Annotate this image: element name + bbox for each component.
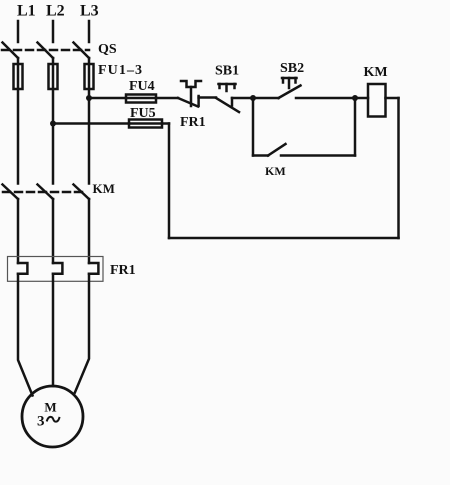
coil KM body xyxy=(368,84,386,117)
button SB2 NO blade xyxy=(279,86,301,99)
button SB2 actuator bar xyxy=(282,77,297,80)
svg-text:QS: QS xyxy=(98,42,117,57)
thermal overload FR1 heater 3 xyxy=(89,263,98,274)
fuse FU5 inner line xyxy=(129,122,162,125)
button SB1 actuator left tick xyxy=(218,84,221,88)
button SB1 actuator right tick xyxy=(233,84,236,88)
contact FR1 NC stem xyxy=(190,87,193,106)
svg-text:FR1: FR1 xyxy=(110,263,136,278)
switch QS linkage dashed line xyxy=(2,49,89,52)
thermal overload FR1 box xyxy=(8,257,104,282)
svg-text:FR1: FR1 xyxy=(180,115,206,130)
svg-text:KM: KM xyxy=(364,65,388,80)
wire L1 overload to motor xyxy=(18,274,33,396)
svg-text:KM: KM xyxy=(93,181,115,196)
wire L3 contact to overload xyxy=(88,199,91,263)
wire FR1 contact to SB1 xyxy=(199,96,216,99)
svg-text:L2: L2 xyxy=(46,3,65,20)
button SB2 actuator left tick xyxy=(282,78,285,83)
wire L3 top stub xyxy=(88,21,91,42)
contactor KM main linkage dashed line xyxy=(3,191,87,194)
svg-text:KM: KM xyxy=(265,164,286,178)
wire FU4 to FR1 contact xyxy=(156,97,178,100)
wire FU5 right stub xyxy=(162,122,169,125)
fuse FU2 body xyxy=(49,64,58,89)
svg-text:FU1–3: FU1–3 xyxy=(98,63,143,78)
svg-text:SB2: SB2 xyxy=(280,61,304,76)
fuse FU1 body xyxy=(14,64,23,89)
contactor KM main pole 2 blade xyxy=(38,185,54,200)
wire bottom return xyxy=(169,237,399,240)
motor tilde wave xyxy=(47,417,59,422)
wire L1 top stub xyxy=(17,21,20,42)
wire right side down xyxy=(397,98,400,238)
wire L3 switch to fuse xyxy=(88,58,91,184)
switch QS pole 3 blade xyxy=(74,43,90,59)
wire KM aux branch horizontal left xyxy=(253,154,268,157)
wire junction to coil xyxy=(355,97,368,100)
wire KM aux branch up xyxy=(354,98,357,156)
wire left return up xyxy=(168,124,171,239)
svg-text:M: M xyxy=(44,400,56,415)
wire L2 overload to motor xyxy=(52,274,55,386)
fuse FU5 body xyxy=(129,120,162,128)
thermal overload FR1 heater 1 xyxy=(18,263,27,274)
contact KM aux NO blade xyxy=(268,144,286,156)
node junction dot L3/control tap xyxy=(86,95,92,101)
button SB1 actuator bar xyxy=(219,83,236,86)
button SB2 actuator right tick xyxy=(294,78,297,83)
wire KM aux branch down xyxy=(252,98,255,156)
thermal overload FR1 heater 2 xyxy=(53,263,62,274)
wire L2 contact to overload xyxy=(52,199,55,263)
fuse FU4 body xyxy=(126,95,156,103)
button SB1 NC blade xyxy=(216,98,239,112)
button SB1 stem xyxy=(225,84,228,91)
motor M circle xyxy=(22,386,83,447)
contact FR1 NC actuator xyxy=(181,81,201,87)
contactor KM main pole 3 blade xyxy=(74,185,90,200)
node junction dot before coil xyxy=(352,95,358,101)
wire L2 top stub xyxy=(52,21,55,42)
fuse FU4 inner line xyxy=(126,97,156,100)
contactor KM main pole 1 blade xyxy=(3,185,19,200)
node junction dot L2/control return tap xyxy=(50,121,56,127)
wire L1 contact to overload xyxy=(17,199,20,263)
svg-text:SB1: SB1 xyxy=(215,64,239,79)
wire KM aux branch horizontal right xyxy=(281,154,355,157)
wire control top: L3 tap to FU4 xyxy=(89,97,126,100)
svg-text:3: 3 xyxy=(37,414,45,430)
wire L2 switch to fuse xyxy=(52,58,55,184)
button SB2 stem xyxy=(288,78,291,88)
svg-text:FU4: FU4 xyxy=(129,79,155,94)
svg-text:L3: L3 xyxy=(80,3,99,20)
wire FU5 to L2 tap xyxy=(53,122,129,125)
node junction dot before SB2 xyxy=(250,95,256,101)
switch QS pole 1 blade xyxy=(3,43,19,59)
button SB1 fixed terminal xyxy=(231,98,234,106)
wire L3 overload to motor xyxy=(75,274,89,393)
wire SB2 to junction 2 xyxy=(296,97,355,100)
switch QS pole 2 blade xyxy=(38,43,54,59)
contact FR1 NC fixed terminal xyxy=(197,96,200,106)
fuse FU3 body xyxy=(85,64,94,89)
wire coil to right drop xyxy=(386,97,399,100)
wire L1 switch to fuse xyxy=(17,58,20,184)
svg-text:L1: L1 xyxy=(17,3,36,20)
wire SB1 to junction xyxy=(232,97,253,100)
contact FR1 NC blade xyxy=(178,98,198,107)
svg-text:FU5: FU5 xyxy=(130,106,156,121)
wire junction to SB2 xyxy=(253,97,279,100)
